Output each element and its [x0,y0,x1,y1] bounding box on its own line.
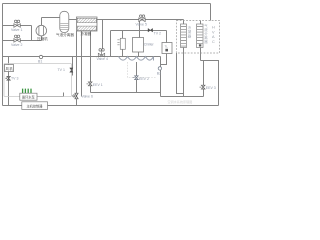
svg-text:TV 2: TV 2 [154,31,161,35]
wire Valve1 line [3,25,32,27]
wire main middle pipe [3,56,161,58]
svg-text:B1: B1 [38,60,42,64]
controller label box [22,102,48,110]
wire right riser [201,61,219,106]
sensor B2 [158,67,161,70]
indoor coil dashed box [128,62,157,78]
wire drop into condenser rect1 [183,20,185,25]
wire separator to plate HX [69,19,77,21]
small control box [162,43,172,54]
svg-text:气液分离器: 气液分离器 [56,32,74,37]
valve V2 [14,35,20,42]
valve V4 [98,49,104,57]
wire EEV2 line [136,62,138,93]
wire outer frame left [2,4,4,106]
wire Valve6 line [76,31,78,106]
wire pump label link [37,93,64,97]
wire filter drain [122,49,124,56]
wire fan box riser [8,57,10,65]
svg-text:Valve 2: Valve 2 [11,43,22,47]
wire outer frame top [3,3,211,5]
wire Valve2 line [3,40,42,42]
svg-text:压缩机: 压缩机 [37,36,48,41]
svg-text:HVAC: HVAC [212,26,215,44]
svg-text:TV 1: TV 1 [58,68,65,72]
svg-text:Valve 1: Valve 1 [11,28,22,32]
water tank green fins [23,89,31,93]
wire EEV3 line [203,61,205,97]
wire TV2 line [111,30,167,32]
svg-text:空调水系统原理图: 空调水系统原理图 [168,99,193,104]
svg-text:Valve 4: Valve 4 [97,57,108,61]
svg-text:冷凝器: 冷凝器 [188,25,192,39]
wire small box drain [161,54,167,65]
wire drop to Valve4 actuator [102,20,104,49]
wire rect1 drain [183,48,185,97]
valve V1 [14,20,20,27]
svg-text:TL: TL [165,44,169,48]
wire indoor return drop [177,53,184,94]
expansion valve EEV2 [133,76,139,80]
expansion valve EEV1 [87,82,93,86]
wire small box feed [166,31,168,43]
wire chiller drain [138,52,140,57]
HVAC dashed box [177,21,220,54]
valve V6 [73,93,78,99]
svg-text:气液分离器: 气液分离器 [204,23,208,44]
svg-text:Chiller: Chiller [144,43,155,47]
svg-text:冷凝器: 冷凝器 [81,31,92,36]
wire TV1 line [72,57,74,76]
fan box [5,65,14,72]
expansion valve TV3 [5,76,10,80]
svg-text:主机控制器: 主机控制器 [27,103,44,108]
svg-text:B2: B2 [157,72,161,76]
svg-text:风机: 风机 [6,66,14,71]
gas-liquid separator vessel [60,11,69,32]
wire EEV1 bottom header [91,92,161,94]
valve TV1 dark [70,68,73,72]
svg-text:Valve 5: Valve 5 [136,22,147,26]
wire rect2 top stub [200,21,202,25]
indoor unit grey container box [4,64,72,97]
svg-text:Valve 6: Valve 6 [82,95,93,99]
pump label box [20,93,37,100]
wire EEV1 line [90,31,92,93]
wire compressor top riser [41,18,43,26]
wire outer frame right upper drop into HVAC box [210,4,212,21]
svg-text:TV 3: TV 3 [11,77,18,81]
plate heat exchanger condenser [77,17,98,31]
expansion valve EEV3 [200,85,206,89]
chiller rect [133,38,144,53]
condenser rect2 in HVAC box [197,24,204,48]
wire rect2 drain [200,48,202,61]
wire TV3 line [8,72,10,106]
valve V5 [139,15,145,22]
wire riser between valve lines [31,26,33,41]
wire compressor bottom tab [41,36,43,41]
coil fan-coil scallops [119,57,154,61]
wire plate HX water drop A [81,31,83,97]
svg-text:EEV 3: EEV 3 [206,86,216,90]
condenser rect1 in HVAC box [181,24,187,48]
valve TV2 dark [148,28,153,32]
wire suction line to separator [42,17,60,19]
svg-text:循环水泵: 循环水泵 [22,95,36,100]
svg-text:EEV 2: EEV 2 [139,77,149,81]
wire B2 sensor line [160,57,162,97]
sensor B1 [39,55,42,58]
filter drier [117,38,125,49]
svg-text:EEV 1: EEV 1 [93,83,103,87]
wire bottom return line [3,105,219,107]
wire riser to Valve4 header [110,31,112,57]
wire main top pipe [97,19,184,21]
wire lower right header [161,96,204,98]
wire drop valve5 line to TV2 line [139,20,141,38]
wire filter feed [122,31,124,39]
compressor U1 [36,25,47,36]
